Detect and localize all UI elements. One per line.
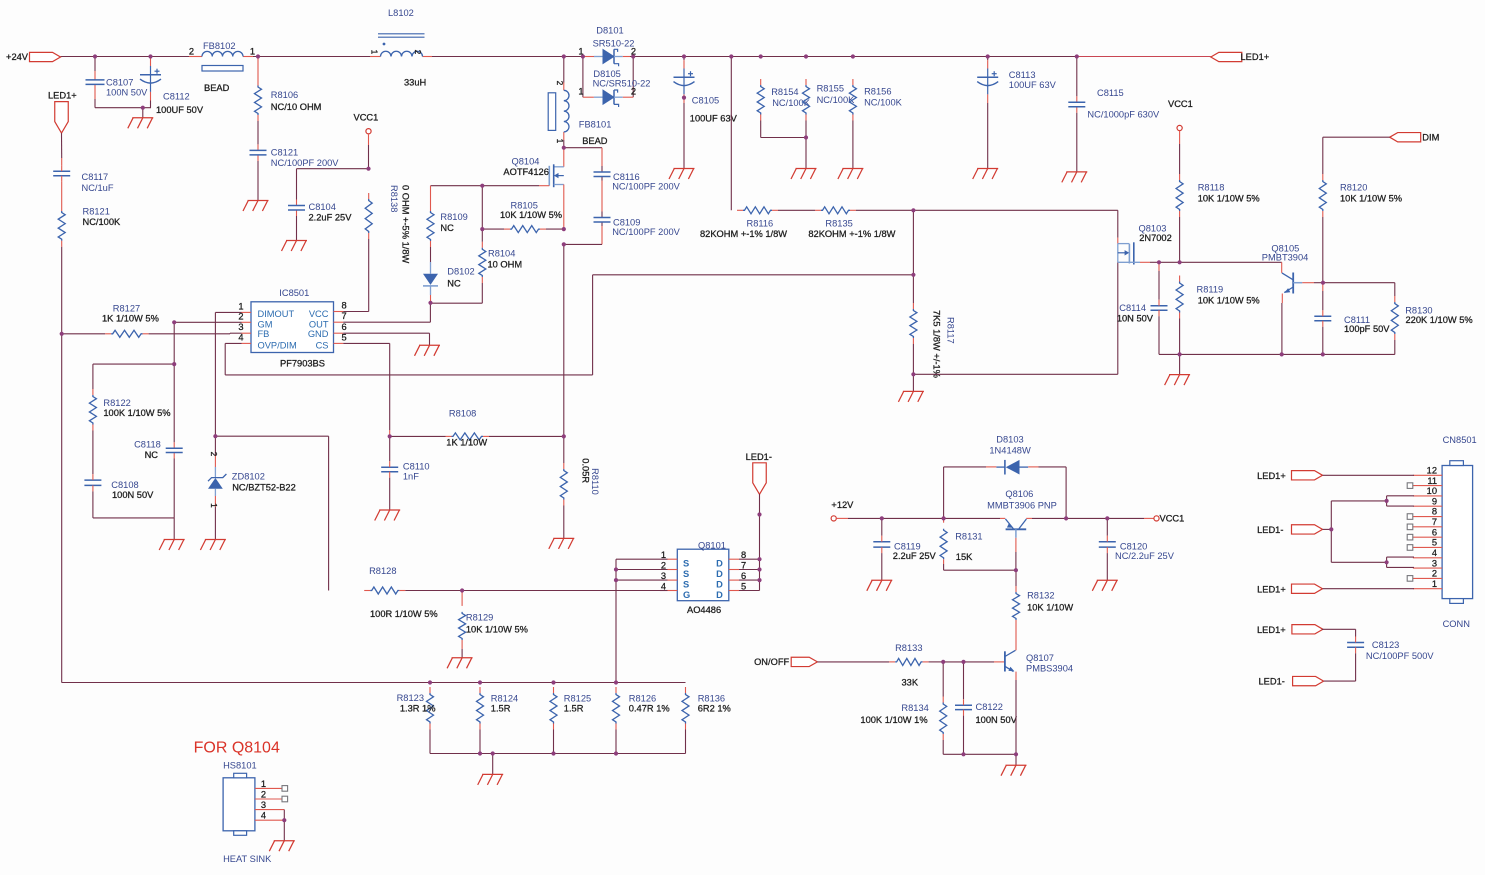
svg-text:FB8101: FB8101 bbox=[579, 120, 612, 130]
capacitor C8116 bbox=[594, 172, 681, 192]
IC Q8101 AO4486 bbox=[661, 540, 746, 615]
svg-text:R8123: R8123 bbox=[397, 693, 424, 703]
junction OVP wire/R8117 bbox=[911, 273, 915, 277]
junction bank R8124 bbox=[478, 680, 482, 684]
svg-text:1N4148W: 1N4148W bbox=[989, 446, 1031, 456]
junction LED1- lead bbox=[757, 512, 761, 516]
junction GM node bbox=[172, 320, 176, 324]
wire GND pin6 bbox=[343, 333, 429, 345]
ground (ZD8102) bbox=[200, 540, 226, 551]
CN8501 no-connect squares bbox=[1407, 483, 1413, 581]
power +12V bbox=[831, 500, 854, 521]
svg-text:5: 5 bbox=[741, 581, 746, 591]
ground (C8107/C8112) bbox=[128, 118, 154, 129]
svg-text:C8117: C8117 bbox=[82, 172, 109, 182]
svg-text:C8121: C8121 bbox=[271, 148, 298, 158]
wire sense bank bottom rail bbox=[430, 754, 686, 775]
junction C8107/C8112 gnd bbox=[141, 106, 145, 110]
wire LED1+ column bbox=[62, 133, 431, 682]
junction rail x=760.7 bbox=[759, 54, 763, 58]
svg-text:2: 2 bbox=[661, 560, 666, 570]
junction S pin 3 bbox=[614, 578, 618, 582]
ground (R8129) bbox=[447, 658, 473, 669]
svg-text:R8128: R8128 bbox=[369, 566, 396, 576]
junction rail x=582.9 bbox=[581, 54, 585, 58]
svg-text:C8122: C8122 bbox=[976, 702, 1003, 712]
svg-text:R8131: R8131 bbox=[955, 532, 982, 542]
junction D pin 6 bbox=[757, 578, 761, 582]
junction rail x=150.5 bbox=[148, 54, 152, 58]
wire C8107/C8112 branch bbox=[95, 57, 151, 118]
junction rail x=731.3 bbox=[729, 54, 733, 58]
resistor R8155 bbox=[803, 79, 856, 169]
power VCC1 (at C8120) bbox=[1154, 514, 1184, 524]
wire ON/OFF to R8133 bbox=[817, 661, 889, 663]
junction C8114 top bbox=[1157, 260, 1161, 264]
svg-text:C8105: C8105 bbox=[692, 96, 719, 106]
ground (sense bank) bbox=[478, 774, 504, 785]
svg-text:2: 2 bbox=[1432, 569, 1437, 579]
svg-text:R8120: R8120 bbox=[1340, 182, 1367, 192]
junction bank R8123 bbox=[428, 680, 432, 684]
svg-text:2: 2 bbox=[209, 452, 219, 457]
svg-text:R8156: R8156 bbox=[864, 87, 891, 97]
svg-text:220K 1/10W 5%: 220K 1/10W 5% bbox=[1406, 315, 1473, 325]
svg-text:8: 8 bbox=[1432, 507, 1437, 517]
resistor R8135 bbox=[808, 207, 895, 239]
svg-text:NC/100K: NC/100K bbox=[83, 217, 122, 227]
svg-text:BEAD: BEAD bbox=[582, 136, 608, 146]
capacitor C8105 bbox=[674, 60, 738, 123]
junction Q8105 emitter bottom bbox=[1280, 352, 1284, 356]
junction +12V/R8131 bbox=[942, 516, 946, 520]
transistor Q8104 (AOTF4126 MOSFET) bbox=[482, 148, 564, 229]
svg-text:MMBT3906 PNP: MMBT3906 PNP bbox=[987, 501, 1057, 511]
svg-text:+24V: +24V bbox=[6, 52, 29, 62]
svg-text:NC/100PF 200V: NC/100PF 200V bbox=[612, 227, 680, 237]
svg-text:7: 7 bbox=[741, 560, 746, 570]
capacitor C8112 bbox=[140, 58, 204, 115]
junction R8154/R8155 bbox=[804, 135, 808, 139]
svg-text:0.47R 1%: 0.47R 1% bbox=[629, 703, 670, 713]
connector LED1- bbox=[746, 452, 772, 559]
svg-text:R8132: R8132 bbox=[1027, 591, 1054, 601]
svg-text:1: 1 bbox=[578, 87, 583, 97]
svg-text:D: D bbox=[716, 590, 723, 600]
wire GM column bbox=[93, 322, 174, 539]
svg-text:100UF 63V: 100UF 63V bbox=[690, 114, 738, 124]
resistor R8119 bbox=[1176, 276, 1260, 375]
resistor R8108 bbox=[390, 409, 564, 448]
svg-text:5: 5 bbox=[342, 332, 347, 342]
svg-text:CONN: CONN bbox=[1443, 619, 1470, 629]
resistor R8136 bbox=[682, 687, 731, 754]
junction VCC1/C8104 bbox=[366, 167, 370, 171]
svg-text:NC/BZT52-B22: NC/BZT52-B22 bbox=[232, 482, 296, 492]
wire R8104 column bbox=[431, 186, 483, 304]
junction bank gnd stub bbox=[491, 751, 495, 755]
svg-text:BEAD: BEAD bbox=[204, 83, 230, 93]
junction D pin 7 bbox=[757, 567, 761, 571]
junction bank R8125 bbox=[551, 680, 555, 684]
svg-text:10N 50V: 10N 50V bbox=[1117, 313, 1154, 323]
svg-text:VCC1: VCC1 bbox=[1160, 514, 1185, 524]
junction +12V/C8119 bbox=[880, 516, 884, 520]
diode D8105 bbox=[578, 69, 650, 107]
svg-text:1: 1 bbox=[250, 47, 255, 57]
svg-text:R8138: R8138 bbox=[389, 185, 399, 212]
resistor R8134 bbox=[860, 662, 946, 754]
svg-text:7: 7 bbox=[1432, 517, 1437, 527]
svg-text:2.2uF 25V: 2.2uF 25V bbox=[309, 213, 353, 223]
connector +24V bbox=[6, 52, 60, 62]
svg-text:1: 1 bbox=[1432, 579, 1437, 589]
junction C8105 lead bbox=[682, 96, 686, 100]
svg-text:1: 1 bbox=[238, 301, 243, 311]
junction R8134 top bbox=[941, 660, 945, 664]
resistor R8128 bbox=[364, 566, 462, 619]
svg-text:6: 6 bbox=[741, 571, 746, 581]
svg-text:1.3R 1%: 1.3R 1% bbox=[400, 704, 436, 714]
svg-text:15K: 15K bbox=[956, 552, 973, 562]
wire +24V rail bbox=[61, 56, 1211, 58]
transistor Q8106 (MMBT3906 PNP) bbox=[987, 489, 1057, 570]
junction CN pins 3/4 bbox=[1385, 560, 1389, 564]
svg-text:D: D bbox=[716, 569, 723, 579]
connector LED1+ (CN pin12) bbox=[1257, 471, 1414, 481]
svg-text:2: 2 bbox=[261, 790, 266, 800]
svg-text:Q8103: Q8103 bbox=[1139, 223, 1167, 233]
junction rail x=258 bbox=[256, 54, 260, 58]
capacitor C8111 bbox=[1314, 283, 1390, 355]
heat sink HS8101 bbox=[223, 761, 288, 865]
junction rail x=852.9 bbox=[851, 54, 855, 58]
svg-text:D8103: D8103 bbox=[996, 435, 1023, 445]
capacitor C8119 bbox=[873, 518, 936, 580]
junction R8135/R8117 bbox=[911, 208, 915, 212]
resistor R8117 bbox=[910, 210, 956, 391]
svg-text:1K 1/10W 5%: 1K 1/10W 5% bbox=[102, 313, 159, 323]
junction R8122 top bbox=[172, 362, 176, 366]
junction R8128/R8129 bbox=[460, 588, 464, 592]
svg-text:L8102: L8102 bbox=[388, 8, 414, 18]
svg-text:Q8107: Q8107 bbox=[1026, 653, 1054, 663]
svg-text:HS8101: HS8101 bbox=[223, 761, 257, 771]
svg-text:R8126: R8126 bbox=[629, 694, 656, 704]
svg-text:R8135: R8135 bbox=[825, 218, 852, 228]
svg-text:10K 1/10W 5%: 10K 1/10W 5% bbox=[1340, 193, 1402, 203]
svg-text:2: 2 bbox=[555, 81, 565, 86]
svg-text:100N 50V: 100N 50V bbox=[112, 490, 154, 500]
capacitor C8108 bbox=[84, 474, 154, 518]
svg-text:D8105: D8105 bbox=[593, 69, 620, 79]
wire main column to R8110 bbox=[563, 244, 565, 463]
svg-text:NC/100PF 200V: NC/100PF 200V bbox=[612, 182, 680, 192]
ground (C8110) bbox=[375, 510, 401, 521]
svg-text:FOR Q8104: FOR Q8104 bbox=[194, 740, 280, 757]
wire R8116-R8135 bbox=[778, 209, 815, 211]
svg-text:6: 6 bbox=[342, 322, 347, 332]
svg-text:9: 9 bbox=[1432, 496, 1437, 506]
svg-text:100R 1/10W 5%: 100R 1/10W 5% bbox=[370, 609, 438, 619]
svg-text:C8108: C8108 bbox=[111, 480, 138, 490]
svg-text:R8105: R8105 bbox=[511, 201, 538, 211]
svg-text:NC/100K: NC/100K bbox=[864, 98, 903, 108]
ground (C8120) bbox=[1092, 580, 1118, 591]
svg-text:10 OHM: 10 OHM bbox=[488, 259, 523, 269]
svg-text:VCC: VCC bbox=[309, 309, 329, 319]
wire GM pin2 bbox=[174, 321, 241, 323]
junction R8105 left bbox=[480, 227, 484, 231]
svg-text:R8130: R8130 bbox=[1405, 305, 1432, 315]
svg-text:NC/100PF 200V: NC/100PF 200V bbox=[271, 158, 339, 168]
svg-text:11: 11 bbox=[1427, 476, 1437, 486]
svg-text:100UF 63V: 100UF 63V bbox=[1009, 80, 1057, 90]
svg-text:10K 1/10W 5%: 10K 1/10W 5% bbox=[466, 624, 528, 634]
ground (R8156) bbox=[838, 169, 864, 180]
ground (R8119) bbox=[1165, 375, 1191, 386]
svg-text:R8121: R8121 bbox=[83, 206, 110, 216]
connector LED1+ (C8123) bbox=[1257, 625, 1356, 637]
capacitor C8113 bbox=[977, 60, 1056, 103]
svg-text:C8112: C8112 bbox=[163, 92, 190, 102]
svg-text:82KOHM +-1% 1/8W: 82KOHM +-1% 1/8W bbox=[808, 229, 895, 239]
junction ZD8102/DIMOUT bbox=[213, 434, 217, 438]
svg-text:S: S bbox=[683, 558, 689, 568]
svg-text:0 OHM +-5% 1/8W: 0 OHM +-5% 1/8W bbox=[401, 185, 411, 263]
ground (R8117) bbox=[898, 391, 924, 402]
svg-text:8: 8 bbox=[741, 550, 746, 560]
resistor R8109 bbox=[427, 205, 468, 247]
svg-text:1.5R: 1.5R bbox=[491, 703, 511, 713]
junction rail x=633.2 bbox=[631, 54, 635, 58]
svg-text:100N 50V: 100N 50V bbox=[976, 715, 1018, 725]
diode D8101 bbox=[578, 25, 636, 66]
junction D8102/OUT bbox=[428, 301, 432, 305]
svg-text:100pF 50V: 100pF 50V bbox=[1344, 324, 1390, 334]
svg-text:2N7002: 2N7002 bbox=[1139, 233, 1172, 243]
resistor R8154 bbox=[757, 79, 811, 138]
svg-text:FB8102: FB8102 bbox=[203, 41, 236, 51]
svg-text:C8120: C8120 bbox=[1120, 541, 1147, 551]
svg-text:6: 6 bbox=[1432, 527, 1437, 537]
svg-text:LED1+: LED1+ bbox=[1257, 471, 1286, 481]
wire base row Q8107 bbox=[943, 661, 1005, 663]
svg-text:D: D bbox=[716, 579, 723, 589]
connector LED1- (CN mid) bbox=[1257, 525, 1331, 535]
svg-text:C8113: C8113 bbox=[1009, 70, 1036, 80]
connector LED1+ (top right) bbox=[1211, 52, 1269, 62]
capacitor C8118 bbox=[134, 439, 183, 459]
resistor R8124 bbox=[477, 687, 519, 754]
svg-text:7K5 1/8W +/-1%: 7K5 1/8W +/-1% bbox=[932, 310, 942, 378]
capacitor C8123 bbox=[1347, 637, 1434, 661]
junction bank R8126/S bbox=[614, 680, 618, 684]
junction bank bottom R8126 bbox=[614, 751, 618, 755]
svg-text:C8116: C8116 bbox=[613, 172, 640, 182]
svg-text:10K 1/10W 5%: 10K 1/10W 5% bbox=[1198, 193, 1260, 203]
svg-text:3: 3 bbox=[261, 800, 266, 810]
svg-text:3: 3 bbox=[1432, 558, 1437, 568]
svg-text:33uH: 33uH bbox=[404, 78, 426, 88]
wire ZD8102 to R8128 bbox=[215, 436, 328, 590]
junction Q8107 emitter bottom bbox=[1014, 752, 1018, 756]
wire DIM to R8120 bbox=[1323, 137, 1390, 174]
svg-text:R8116: R8116 bbox=[747, 218, 774, 228]
connector LED1- (C8123) bbox=[1259, 653, 1356, 686]
svg-text:LED1+: LED1+ bbox=[48, 90, 77, 100]
resistor R8132 bbox=[1013, 570, 1074, 644]
ground (HS8101) bbox=[269, 841, 295, 852]
svg-text:DIMOUT: DIMOUT bbox=[258, 309, 295, 319]
resistor R8131 bbox=[940, 518, 1016, 570]
svg-text:R8118: R8118 bbox=[1198, 182, 1225, 192]
wire R8128 to Q8101 G bbox=[462, 590, 667, 592]
junction C8111 bottom bbox=[1321, 352, 1325, 356]
svg-text:R8125: R8125 bbox=[564, 694, 591, 704]
svg-text:NC/10 OHM: NC/10 OHM bbox=[271, 102, 322, 112]
transistor Q8103 (2N7002 MOSFET) bbox=[1118, 223, 1172, 264]
svg-text:R8110: R8110 bbox=[590, 468, 600, 495]
svg-text:C8109: C8109 bbox=[613, 217, 640, 227]
zener diode ZD8102 bbox=[208, 436, 296, 539]
svg-text:NC: NC bbox=[447, 278, 461, 288]
connector LED1+ (far left) bbox=[48, 90, 77, 133]
svg-text:Q8104: Q8104 bbox=[512, 157, 540, 167]
svg-text:C8104: C8104 bbox=[309, 202, 336, 212]
svg-text:7: 7 bbox=[342, 311, 347, 321]
wire R8117 loop to C8114 bbox=[913, 262, 1117, 374]
resistor R8118 bbox=[1176, 174, 1260, 262]
ground (C8118/C8108) bbox=[159, 540, 185, 551]
svg-text:1: 1 bbox=[209, 503, 219, 508]
svg-text:4: 4 bbox=[661, 581, 666, 591]
resistor R8129 bbox=[459, 591, 528, 658]
capacitor C8107 bbox=[86, 78, 149, 98]
junction LED1- bus bbox=[1329, 527, 1333, 531]
resistor R8130 bbox=[1391, 296, 1472, 354]
svg-text:GM: GM bbox=[258, 319, 273, 329]
junction S pin 2 bbox=[614, 567, 618, 571]
svg-text:R8154: R8154 bbox=[771, 87, 798, 97]
junction rail x=684 bbox=[682, 54, 686, 58]
svg-text:FB: FB bbox=[258, 329, 270, 339]
svg-text:NC/100PF 500V: NC/100PF 500V bbox=[1366, 651, 1434, 661]
junction rail x=1076.8 bbox=[1075, 54, 1079, 58]
svg-text:R8129: R8129 bbox=[466, 613, 493, 623]
svg-text:R8104: R8104 bbox=[488, 249, 515, 259]
junction rail x=987.7 bbox=[986, 54, 990, 58]
wire OUT pin7 bbox=[343, 303, 430, 322]
svg-text:3: 3 bbox=[238, 322, 243, 332]
inductor L8102 bbox=[370, 8, 427, 88]
wire +12V rail bbox=[848, 517, 1154, 519]
svg-text:D8102: D8102 bbox=[447, 266, 474, 276]
svg-text:PMBT3904: PMBT3904 bbox=[1262, 252, 1309, 262]
svg-text:4: 4 bbox=[238, 332, 243, 342]
svg-text:NC/1000pF 630V: NC/1000pF 630V bbox=[1087, 110, 1160, 120]
power VCC1 (left) bbox=[354, 113, 379, 169]
junction bank bottom R8125 bbox=[551, 751, 555, 755]
svg-text:S: S bbox=[683, 569, 689, 579]
power VCC1 (right) bbox=[1168, 99, 1193, 174]
resistor R8110 bbox=[560, 458, 600, 538]
resistor R8105 bbox=[482, 201, 564, 233]
svg-text:NC/SR510-22: NC/SR510-22 bbox=[593, 79, 651, 89]
svg-text:C8110: C8110 bbox=[403, 461, 430, 471]
svg-text:R8108: R8108 bbox=[449, 409, 476, 419]
svg-text:10K 1/10W 5%: 10K 1/10W 5% bbox=[1198, 295, 1260, 305]
junction +12V/C8120 bbox=[1105, 516, 1109, 520]
junction Q8104 source bbox=[562, 227, 566, 231]
connector CN8501 bbox=[1442, 435, 1477, 629]
ferrite bead FB8101 bbox=[548, 81, 611, 146]
svg-text:1: 1 bbox=[370, 50, 380, 55]
svg-text:0.05R: 0.05R bbox=[581, 458, 591, 483]
svg-text:R8117: R8117 bbox=[946, 317, 956, 344]
resistor R8126 bbox=[613, 687, 670, 754]
wire R8106/C8121 column bbox=[257, 57, 259, 201]
svg-text:5: 5 bbox=[1432, 538, 1437, 548]
capacitor C8110 bbox=[381, 436, 429, 510]
svg-text:R8134: R8134 bbox=[901, 703, 928, 713]
wire R8116 feed bbox=[730, 57, 732, 211]
resistor R8156 bbox=[849, 79, 902, 169]
svg-text:2.2uF 25V: 2.2uF 25V bbox=[893, 551, 937, 561]
svg-text:LED1-: LED1- bbox=[1257, 525, 1283, 535]
svg-text:DIM: DIM bbox=[1422, 132, 1439, 142]
wire D8105 parallel bbox=[583, 57, 633, 98]
resistor R8104 bbox=[479, 242, 522, 283]
svg-text:NC: NC bbox=[145, 450, 159, 460]
ground (Q8107) bbox=[1001, 765, 1027, 776]
svg-text:D: D bbox=[716, 558, 723, 568]
svg-text:+12V: +12V bbox=[831, 500, 854, 510]
wire Q8107 bottom row bbox=[943, 754, 1016, 765]
ground (C8115) bbox=[1062, 172, 1088, 183]
capacitor C8117 bbox=[53, 165, 114, 193]
wire base node to R8130 bbox=[1323, 283, 1395, 296]
svg-text:R8155: R8155 bbox=[817, 84, 844, 94]
svg-text:6R2 1%: 6R2 1% bbox=[698, 703, 731, 713]
svg-text:R8136: R8136 bbox=[698, 694, 725, 704]
svg-text:C8119: C8119 bbox=[894, 541, 921, 551]
svg-text:C8114: C8114 bbox=[1119, 303, 1146, 313]
svg-text:PMBS3904: PMBS3904 bbox=[1026, 663, 1073, 673]
junction CN pins 9/10 bbox=[1385, 499, 1389, 503]
ground (C8105) bbox=[669, 169, 695, 180]
svg-text:100K 1/10W 5%: 100K 1/10W 5% bbox=[103, 408, 170, 418]
svg-text:AO4486: AO4486 bbox=[687, 605, 721, 615]
svg-text:SR510-22: SR510-22 bbox=[593, 39, 635, 49]
ground (C8113) bbox=[973, 169, 999, 180]
svg-text:OVP/DIM: OVP/DIM bbox=[258, 340, 297, 350]
resistor R8120 bbox=[1319, 174, 1402, 283]
svg-text:C8107: C8107 bbox=[106, 78, 133, 88]
svg-text:1nF: 1nF bbox=[403, 472, 419, 482]
svg-text:AOTF4126: AOTF4126 bbox=[503, 167, 548, 177]
svg-text:1: 1 bbox=[261, 779, 266, 789]
connector DIM bbox=[1390, 132, 1440, 142]
svg-text:R8122: R8122 bbox=[103, 398, 130, 408]
junction rail x=563.8 bbox=[562, 54, 566, 58]
svg-text:LED1+: LED1+ bbox=[1241, 52, 1270, 62]
svg-text:IC8501: IC8501 bbox=[279, 288, 309, 298]
svg-text:R8119: R8119 bbox=[1197, 284, 1224, 294]
svg-text:G: G bbox=[683, 590, 690, 600]
resistor R8138 bbox=[365, 185, 410, 312]
svg-text:ON/OFF: ON/OFF bbox=[754, 657, 789, 667]
